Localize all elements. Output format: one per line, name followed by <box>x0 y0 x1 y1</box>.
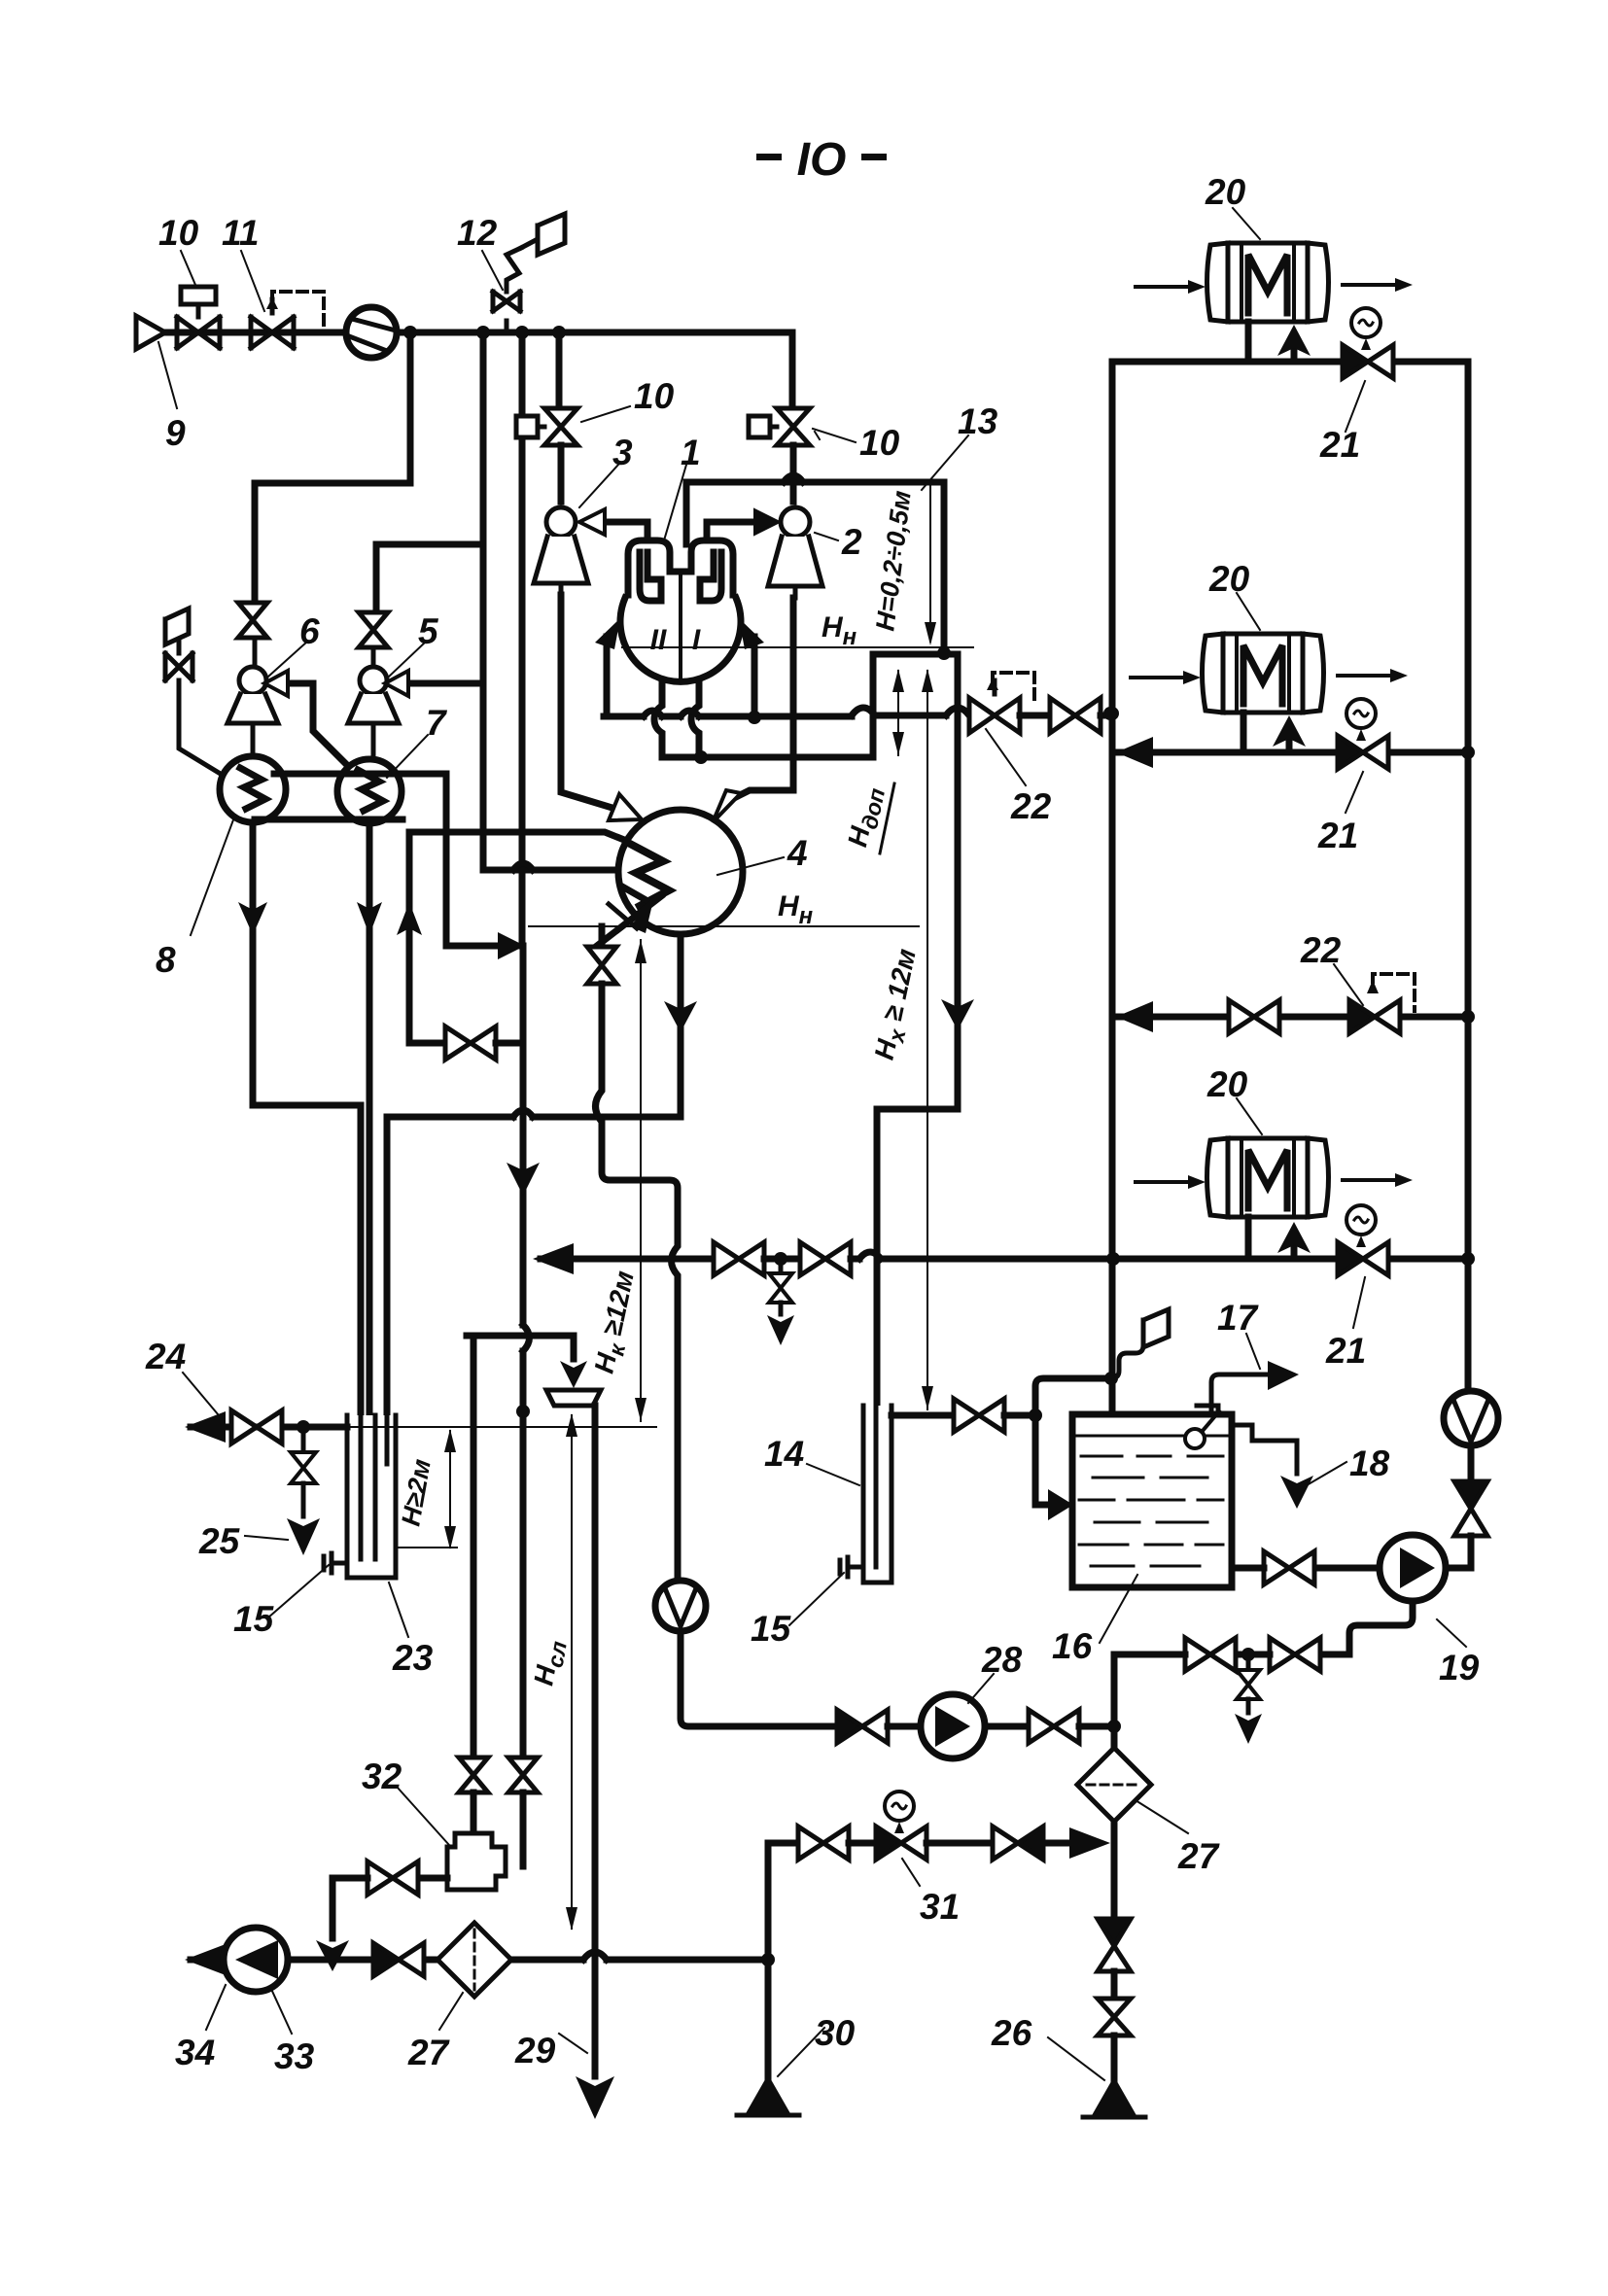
outline: left tower + bottom arc + right tower <box>628 540 733 595</box>
label 20 (bottom) <box>1237 1098 1262 1134</box>
wire: HX8-HX7 top tie and to x=459 <box>274 774 446 946</box>
svg-text:29: 29 <box>514 2031 556 2070</box>
label 31 <box>902 1859 920 1886</box>
wire: under-boiler line y=737 (to valve 22 line) <box>604 713 852 720</box>
svg-text:20: 20 <box>1206 1064 1248 1104</box>
svg-text:5: 5 <box>418 611 439 651</box>
cone 26 (solid) <box>1091 2076 1137 2117</box>
flow arrows at HX20 bottom <box>1136 1180 1395 1182</box>
electrode 15 on vessel 14 <box>840 1557 863 1577</box>
svg-text:28: 28 <box>981 1640 1023 1680</box>
heat exchanger 7 (circle with coil) <box>337 759 402 823</box>
svg-text:I: I <box>692 624 701 656</box>
label 7 <box>387 735 428 778</box>
valve on HX4 drain branch x=619 <box>599 926 606 945</box>
node: junction dots on top line <box>403 326 566 339</box>
wire: collector line y=1149 from separator to HX4 drop <box>387 1110 681 1117</box>
valve above 32 (left) <box>459 1757 488 1792</box>
wire: x=538 descent with bridge, arrow, to y=1468 <box>523 946 530 1427</box>
vent flag + valve at far left (x=184) <box>165 609 219 773</box>
control valve 6 (circle+funnel) <box>227 638 278 760</box>
wire: feed pipe from regulator line down to vessel 14 <box>877 719 958 1406</box>
label 26 <box>1048 2037 1104 2080</box>
outlet arrow left (solid) <box>533 1243 574 1274</box>
wire: HX8 discharge down <box>250 822 257 1105</box>
svg-text:20: 20 <box>1205 172 1246 212</box>
wire: y=737 bridges over x=898/x=954 dimension lines then valve 22 <box>852 708 969 715</box>
thin level line Hn at boiler <box>622 646 973 648</box>
svg-text:3: 3 <box>612 433 633 472</box>
bypass line y=1046 with valves <box>1112 1014 1468 1021</box>
svg-text:21: 21 <box>1317 816 1358 855</box>
wire: vessel23 feed pipe x=398 from collector <box>384 1117 391 1415</box>
wire: left main riser x=1144 <box>1109 362 1116 1414</box>
svg-text:6: 6 <box>299 611 320 651</box>
svg-text:30: 30 <box>815 2013 856 2053</box>
label 15 (left) <box>268 1565 329 1618</box>
label 27 (left) <box>439 1993 463 2030</box>
label 18 <box>1307 1462 1346 1485</box>
svg-text:21: 21 <box>1325 1331 1366 1371</box>
inlet arrow into HX4 from CV3 branch (top-left) <box>561 595 615 809</box>
heat exchanger 8 (circle with coil) <box>220 756 286 822</box>
svg-text:31: 31 <box>920 1887 960 1927</box>
svg-text:18: 18 <box>1349 1444 1390 1483</box>
label 23 <box>389 1583 408 1637</box>
svg-text:24: 24 <box>145 1337 186 1376</box>
svg-text:33: 33 <box>274 2036 315 2076</box>
riser into boiler section I with arrow <box>752 637 758 717</box>
dim: H=0.2-0.5m vertical line with arrow <box>929 482 931 642</box>
svg-text:27: 27 <box>1177 1836 1221 1876</box>
node: dots at y=733/774 on risers <box>1105 707 1119 720</box>
drain branch under y=1702 <box>1246 1654 1251 1668</box>
label II / I inside boiler <box>650 624 701 656</box>
svg-text:17: 17 <box>1217 1298 1260 1338</box>
svg-text:27: 27 <box>407 2033 451 2072</box>
label 32 <box>397 1787 449 1845</box>
wire: x=459 to arrow into x=538 <box>446 943 498 950</box>
wire: main line continues right with bridge over x=895 <box>851 1252 1113 1259</box>
wire: top line corner down at x=815 <box>789 332 796 406</box>
vent with flag on tank <box>1111 1320 1143 1378</box>
label 22 (right) <box>1334 964 1363 1005</box>
control valve 22 (right) with dashed box <box>1349 974 1415 1033</box>
label 6 <box>268 642 307 677</box>
label 34 <box>206 1985 226 2030</box>
drain branch under main line at x=803 <box>779 1259 784 1271</box>
valve on main line (right) <box>800 1242 851 1275</box>
divider <box>679 572 682 680</box>
riser into boiler section II with arrow <box>604 637 611 716</box>
shutoff valve above CV6 <box>238 603 267 638</box>
svg-text:4: 4 <box>787 833 808 873</box>
return line y=774 <box>1112 749 1468 756</box>
wire: HX20 top connections <box>1248 322 1294 362</box>
label 12 <box>482 251 503 290</box>
svg-text:32: 32 <box>362 1757 402 1796</box>
wire: x=575 down to valve 10-left column <box>556 332 563 406</box>
dim: Nsl line <box>571 1415 573 1929</box>
pump 19 (circle with solid triangle) <box>1380 1535 1446 1601</box>
label 11 <box>241 251 264 311</box>
label 28 <box>968 1674 994 1703</box>
svg-text:10: 10 <box>634 376 675 416</box>
svg-text:10: 10 <box>859 423 900 463</box>
valve on line to right network <box>1050 698 1101 733</box>
funnel (open drain) <box>546 1390 601 1406</box>
label 24 <box>183 1373 224 1421</box>
CV5 inlet arrow <box>385 671 408 696</box>
shutoff valve on column <box>1098 1999 1131 2035</box>
label 5 <box>389 642 426 677</box>
wire: branch to tank inlet (upper) <box>1035 1378 1111 1415</box>
label 21 (top) <box>1346 381 1365 432</box>
svg-text:1: 1 <box>681 433 701 472</box>
svg-text:8: 8 <box>156 940 176 980</box>
float valve in tank <box>1197 1406 1218 1415</box>
wire: drain collector to funnel 29 <box>467 1336 574 1359</box>
thin level line Hn at HX4 <box>529 925 919 927</box>
node: CV2 inlet arrow from boiler <box>707 519 754 526</box>
valve on bottom line <box>373 1943 424 1976</box>
blowdown line 24 at y=1468 <box>191 1424 347 1431</box>
valve line y=1073 from x=421 to x=538 <box>409 1040 442 1047</box>
svg-text:7: 7 <box>426 703 448 743</box>
label 27 (right) <box>1136 1800 1188 1833</box>
thermo valve 21 (bottom) <box>1338 1205 1388 1275</box>
branch line y=372 <box>1112 359 1468 365</box>
label 20 (top) <box>1233 208 1260 239</box>
wire: right main riser x=1510 <box>1465 362 1472 1394</box>
label 15 (right) <box>789 1573 844 1625</box>
bottom discharge line y=2016 <box>191 1957 768 1964</box>
wire: HX20 bottom connections to main line y=1295 <box>1248 1217 1294 1259</box>
wire: main top header line y=342 <box>163 330 792 336</box>
svg-text:II: II <box>650 624 667 656</box>
outlet arrow 34 (solid left) <box>185 1944 226 1975</box>
label 10 (mid-left) <box>581 406 630 422</box>
junction and riser to cone 30 <box>761 1953 775 1966</box>
node: corner dot at (971,672) <box>937 646 951 660</box>
wire: from valve down to bottom line <box>332 1878 367 1938</box>
wire: HX20 middle connections <box>1243 713 1289 752</box>
wire: drain branch x=619 hops collector, jogs right, hops main line, to meter <box>596 984 679 1583</box>
boiler bottom outlet pipes with jogs <box>654 682 662 757</box>
label 10 (right of valve) <box>813 429 856 442</box>
label 29 <box>559 2034 587 2053</box>
svg-text:20: 20 <box>1208 559 1250 599</box>
wire: HX4 bottom discharge down <box>678 934 684 1117</box>
heat exchanger 20 (middle) <box>1203 634 1324 713</box>
pump 28 (circle with solid triangle) <box>921 1694 985 1758</box>
flow arrows at HX20 middle <box>1131 676 1390 678</box>
wire: columns down to unit 32 <box>471 1336 477 1756</box>
svg-text:15: 15 <box>233 1599 275 1639</box>
filter 27 (right, diamond) on column x=1146 <box>1111 1726 1118 1750</box>
label 30 <box>778 2028 824 2076</box>
main distribution line y=1295 <box>541 1256 711 1263</box>
valve above 32 (right) <box>508 1757 538 1792</box>
label 17 <box>1246 1334 1260 1369</box>
dim: H>=2m beside vessel 23 <box>449 1431 451 1548</box>
control valve 11 with dashed pilot box <box>251 292 324 348</box>
wire: x=421 riser from valve line to HX4 top feed <box>409 832 634 1043</box>
thermo valve 21 (top) <box>1343 308 1393 378</box>
valve 24 <box>231 1410 282 1444</box>
cone 30 (solid) <box>745 2074 791 2115</box>
label 1 with leader <box>664 465 686 540</box>
wire: coil inlet from x=497 at y=895 (bridge over x=538) <box>483 863 615 870</box>
horn vent 17 <box>1211 1374 1268 1414</box>
label 3 <box>579 465 618 507</box>
outlet arrow 24 (solid left) <box>185 1411 226 1443</box>
pump (circle with chords) on top line <box>346 307 397 358</box>
valve 10 (right, above CV2) with cap <box>749 408 810 445</box>
thermo valve 21 (middle) <box>1338 699 1388 769</box>
label 2 <box>815 533 838 540</box>
wire: coil bottom crossing with arrow (from x=537 junction line) <box>597 896 661 946</box>
inner cups <box>640 552 661 601</box>
inlet arrow into HX4 from CV2 branch (top-right) <box>736 598 793 797</box>
node: CV3 inlet arrow from boiler <box>605 519 647 526</box>
dim: Hx>=12m long line down to vessel 14 <box>926 768 928 1409</box>
svg-text:12: 12 <box>457 213 498 253</box>
wire: vessel23 feed pipe x=371 <box>358 1105 365 1415</box>
sewer arrow 29 (big solid down) <box>576 2076 614 2119</box>
heat exchanger 20 (bottom) <box>1207 1138 1329 1217</box>
label 33 <box>270 1987 292 2034</box>
label 20 (middle) <box>1237 593 1260 630</box>
label 14 <box>807 1464 859 1485</box>
svg-text:22: 22 <box>1010 786 1052 826</box>
label 4 with leader <box>717 857 784 875</box>
svg-text:34: 34 <box>175 2033 215 2072</box>
check valve on column x=1146 <box>1098 1919 1131 1971</box>
control valve 22 (first) with dashed pilot box <box>969 673 1034 733</box>
wire: drain pipe x=612 down to sewer arrow <box>592 1406 599 2076</box>
circulation pump (circle-V) on right riser <box>1444 1391 1498 1445</box>
control valve 31 with thermometer <box>876 1792 926 1860</box>
page number -10- <box>756 134 887 186</box>
wire: pump 19 inlet from tank <box>1314 1565 1380 1572</box>
control valve 3 (circle+funnel), fed from right <box>534 507 588 595</box>
svg-text:26: 26 <box>991 2013 1032 2053</box>
bridge: x=816 over box top <box>784 475 803 482</box>
drain valve 25 branch <box>301 1427 306 1450</box>
svg-text:23: 23 <box>392 1638 434 1678</box>
svg-text:22: 22 <box>1300 930 1342 970</box>
label 13 <box>922 435 968 490</box>
dim: Ndop arrows inside small box <box>898 671 927 766</box>
dim: Hk>=12m line from HX4 level down <box>640 940 642 1421</box>
node: dots on risers at y=1295 <box>1106 1252 1120 1266</box>
wire: branch into tank via arrow (lower) <box>1035 1415 1052 1505</box>
label 9 <box>158 342 177 408</box>
svg-text:9: 9 <box>165 413 186 453</box>
control valve 2 (circle+funnel), fed from left <box>768 507 822 598</box>
label 25 <box>245 1536 288 1540</box>
valve 10 (top-left shutoff with cap) <box>177 287 220 348</box>
electrode 15 on vessel 23 <box>324 1553 347 1573</box>
svg-text:16: 16 <box>1052 1626 1093 1666</box>
filter 27 (left, diamond) <box>437 1923 511 1997</box>
svg-text:2: 2 <box>841 522 862 562</box>
svg-text:13: 13 <box>958 401 998 441</box>
heat exchanger 4 (big circle with coil) <box>618 810 743 934</box>
svg-text:11: 11 <box>222 213 259 253</box>
separator vessel 23 <box>347 1415 396 1578</box>
box 13 frame around boiler <box>686 482 944 653</box>
wire: x=422 down to y=497 then left to x=262 <box>255 332 410 483</box>
boiler unit 1 (two-section heating boiler) <box>620 522 741 681</box>
svg-text:15: 15 <box>751 1609 792 1649</box>
safety valve 12 assembly above line <box>493 214 565 332</box>
wire: lower under-boiler line y=779 <box>662 754 873 761</box>
svg-text:19: 19 <box>1439 1648 1480 1687</box>
label 10 (top left) <box>181 251 195 285</box>
wire: from valve10-left down to CV3 <box>558 445 565 502</box>
check valve below pump <box>1468 1445 1475 1481</box>
svg-text:25: 25 <box>198 1521 241 1561</box>
pump 33 (circle with triangle) <box>224 1928 288 1992</box>
inlet arrow 9 (hollow) <box>136 316 165 349</box>
vessel 14 (measuring column) <box>863 1406 891 1583</box>
flow arrows at HX20 top <box>1136 285 1395 287</box>
water meter (circle-V) above pump 28 line <box>655 1581 706 1631</box>
wire: from valve10-right down to CV2 <box>790 445 797 502</box>
label 19 <box>1437 1619 1466 1647</box>
heat exchanger 20 (top) <box>1207 243 1329 322</box>
wire: collector line y=1137 from HX8 to separator <box>253 1102 361 1109</box>
label 16 <box>1100 1575 1137 1643</box>
wire: x=538 cold line from top header down <box>519 332 526 946</box>
wire: meter down and right to pump 28 <box>681 1631 834 1726</box>
control valve 5 (circle+funnel) <box>348 647 399 758</box>
shutoff valve above CV5 <box>359 612 388 647</box>
wire: x=262 down to valve 6 column <box>252 483 259 599</box>
dimension box right of boiler <box>873 654 958 757</box>
CV6 inlet from HX7 riser <box>282 680 313 687</box>
mixing unit 32 (tee body) <box>447 1833 506 1890</box>
valve on main line (left) <box>714 1242 764 1275</box>
wire: pump 19 discharge loop down-left <box>1349 1601 1413 1654</box>
overflow 18 from tank <box>1232 1425 1297 1474</box>
label 21 (bottom) <box>1353 1277 1365 1328</box>
label 21 (middle) <box>1346 772 1363 813</box>
wire: top line y=1456 from vessel 14 to tank <box>891 1412 951 1419</box>
wire: x=497 branch column <box>376 332 615 870</box>
valve 10 (left, above CV3) with cap <box>516 408 577 445</box>
svg-text:IO: IO <box>797 134 847 186</box>
label 8 <box>191 815 235 935</box>
valve left of 32 <box>412 1875 447 1882</box>
wire: HX7 discharge down to separator <box>367 823 373 1415</box>
wire: HX8-HX7 bottom tie to x=414 <box>255 817 402 823</box>
svg-text:14: 14 <box>764 1434 804 1474</box>
makeup line y=1896 from unit 32 to column <box>768 1840 795 1847</box>
svg-text:21: 21 <box>1319 425 1360 465</box>
wire: tank outlet to valve/pump 19 <box>1232 1565 1264 1572</box>
tank 16 (open reservoir with water) <box>1072 1414 1232 1587</box>
svg-text:10: 10 <box>158 213 199 253</box>
label 22 with leader <box>986 729 1026 785</box>
